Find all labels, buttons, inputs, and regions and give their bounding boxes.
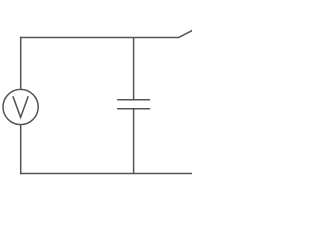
wire left vertical (top wire to source) — [20, 37, 22, 90]
wire bottom horizontal — [20, 173, 193, 175]
wire left vertical (source to bottom wire) — [20, 124, 22, 174]
capacitor C1 bottom plate — [117, 108, 150, 110]
switch S1 blade (open, cut by image edge) — [178, 30, 193, 38]
capacitor C1 top plate — [117, 99, 150, 101]
wire capacitor branch top (node at top wire to plate) — [133, 37, 135, 99]
voltage source V1 label V — [13, 96, 28, 117]
voltage source V1 circle — [3, 89, 38, 124]
wire top horizontal — [20, 36, 179, 38]
wire capacitor branch bottom (plate to bottom wire) — [133, 109, 135, 175]
